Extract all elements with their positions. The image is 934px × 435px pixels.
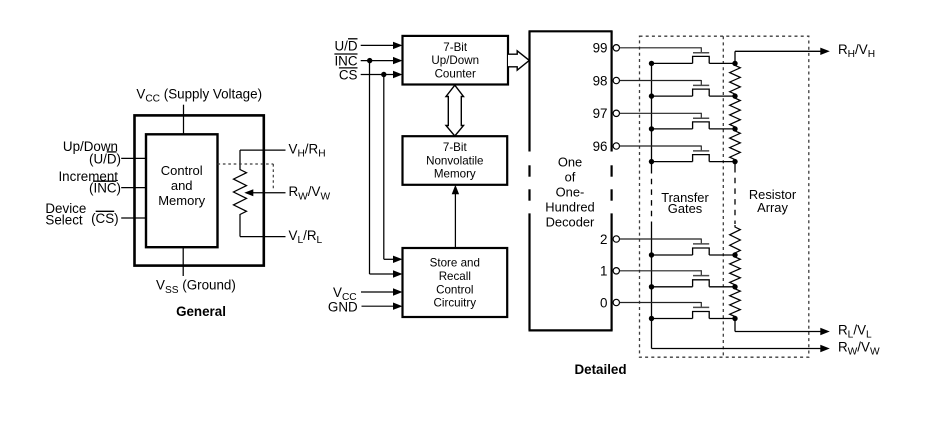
potentiometer resistor body [234,168,247,217]
label RH/VH [838,42,875,60]
wire CS drop to store/recall [384,75,403,264]
decoder output 97 label [593,106,608,121]
svg-text:Detailed: Detailed [574,362,626,377]
decoder output 98 label [593,73,608,88]
decoder output 96 label [593,139,608,154]
svg-text:99: 99 [593,41,608,56]
svg-text:One-: One- [556,185,585,200]
svg-text:Gates: Gates [668,201,702,216]
label Increment [58,169,118,184]
Vss ground lead [182,247,184,276]
label Vss (Ground) [156,278,236,296]
label CS (detailed) with overbar [339,67,358,82]
dotted control link horizontal [218,163,274,165]
svg-text:7-Bit: 7-Bit [443,141,468,154]
resistor array bottom lead to RL [735,319,830,336]
wiper bus dashed break [651,168,653,225]
svg-text:(U/D): (U/D) [89,151,121,166]
transfer gate Q97 (pass transistor for tap 97) [620,113,738,132]
svg-text:Nonvolatile: Nonvolatile [426,154,483,167]
svg-text:7-Bit: 7-Bit [443,41,468,54]
resistor R2-R1 [730,255,741,287]
label RW/VW (detailed) [838,340,880,358]
svg-text:Control: Control [436,283,473,296]
Vcc supply lead [183,105,185,135]
label VH/RH [289,142,326,160]
decoder output 0 label [600,295,607,310]
svg-text:97: 97 [593,106,608,121]
svg-text:Memory: Memory [434,168,476,181]
caption Detailed [574,362,626,377]
svg-text:Select: Select [45,212,82,227]
label Up/Down [63,139,118,154]
label Resistor Array [749,187,797,215]
resistor R99-R98 [730,63,741,96]
svg-text:Control: Control [161,163,203,178]
transfer gate Q96 (pass transistor for tap 96) [620,146,738,165]
resistor chain break (dashed) [734,162,736,224]
transfer gate Q2 (pass transistor for tap 2) [620,239,738,258]
hollow arrow counter to decoder [508,51,529,70]
outer box (General device boundary) [135,115,264,265]
wiper bus to RW [652,345,830,352]
label INC (detailed) with overbar [334,54,357,69]
label U/D (detailed) with overbar on D [334,38,357,53]
block: Store and Recall Control Circuitry [403,248,508,317]
wire Vcc to store [361,288,403,295]
resistor array top lead to RH [735,48,830,64]
svg-text:Recall: Recall [439,270,471,283]
arrow store/recall to memory [452,185,459,248]
transfer gate Q0 (pass transistor for tap 0) [620,302,738,321]
decoder output 2 label [600,232,607,247]
resistor R97-R96 [730,129,741,162]
svg-text:Store and: Store and [430,257,480,270]
svg-text:Memory: Memory [158,193,205,208]
label Vcc (Supply Voltage) [136,86,262,104]
block: 7-Bit Nonvolatile Memory [403,136,508,185]
wiper arrow and RW wire [244,189,285,196]
decoder output 96 circle [613,143,619,149]
wire U/D input [121,157,146,159]
resistor R98-R97 [730,96,741,129]
svg-text:2: 2 [600,232,607,247]
decoder output 0 circle [613,299,619,305]
svg-text:INC: INC [334,54,357,69]
label Device Select [45,201,86,228]
svg-text:Decoder: Decoder [546,215,595,230]
svg-text:Array: Array [757,200,788,215]
junction dot INC [367,58,372,63]
wire INC input [121,187,146,189]
svg-text:and: and [171,178,193,193]
resistor R3-R2 [730,225,741,255]
svg-text:CS: CS [339,67,358,82]
wiper bus solid lower [651,225,653,349]
svg-text:General: General [176,304,226,319]
svg-text:98: 98 [593,73,608,88]
decoder output 98 circle [613,77,619,83]
svg-text:Circuitry: Circuitry [434,297,477,310]
label VL/RL [289,228,323,246]
label GND [328,300,358,315]
svg-text:1: 1 [600,264,607,279]
block: One of One-Hundred Decoder (sides dashed at break) [529,31,613,330]
decoder output 97 circle [613,110,619,116]
transfer gate Q99 (pass transistor for tap 99) [620,47,738,66]
label RL/VL [838,322,872,340]
svg-text:Up/Down: Up/Down [431,54,479,67]
decoder output 99 circle [613,45,619,51]
svg-text:Counter: Counter [435,68,476,81]
block: Control and Memory [146,134,218,247]
wiper bus solid upper [651,63,653,168]
dashed divider between transfer gates and resistor array [722,36,724,357]
svg-text:Hundred: Hundred [545,200,594,215]
wire INC to counter [361,57,403,64]
wire INC drop to store/recall [370,61,403,278]
decoder output 1 label [600,264,607,279]
label (CS) with overbar [91,211,119,226]
label RW/VW (general) [289,184,331,202]
caption General [176,304,226,319]
pot bottom lead [239,217,241,237]
label (INC) with overbar [89,181,121,196]
svg-text:One: One [558,155,582,170]
svg-text:U/D: U/D [334,38,357,53]
label Transfer Gates [661,190,709,216]
wire U/D to counter [361,42,403,49]
svg-text:GND: GND [328,300,358,315]
decoder output 99 label [593,41,608,56]
wire CS input [121,217,146,219]
wire VH to pot top [240,149,286,151]
decoder output 1 circle [613,268,619,274]
wire GND to store [362,303,403,310]
block: 7-Bit Up/Down Counter [403,36,509,85]
svg-text:of: of [565,170,576,185]
svg-text:0: 0 [600,295,607,310]
label Vcc (detailed) [333,285,357,303]
label (U/D) with overbar on D [89,151,121,166]
transfer gate Q98 (pass transistor for tap 98) [620,80,738,99]
pot top lead [239,150,241,167]
resistor R1-R0 [730,287,741,319]
dashed box Transfer Gates / Resistor Array [640,36,809,357]
decoder output 2 circle [613,236,619,242]
svg-text:(INC): (INC) [89,181,121,196]
dotted control link vertical [272,164,274,190]
wire VL from pot bottom [240,236,286,238]
junction dot CS [381,72,386,77]
transfer gate Q1 (pass transistor for tap 1) [620,270,738,289]
svg-text:96: 96 [593,139,608,154]
wire CS to counter [361,71,403,78]
svg-text:(CS): (CS) [91,211,119,226]
hollow bidirectional arrow counter-memory [446,85,464,136]
